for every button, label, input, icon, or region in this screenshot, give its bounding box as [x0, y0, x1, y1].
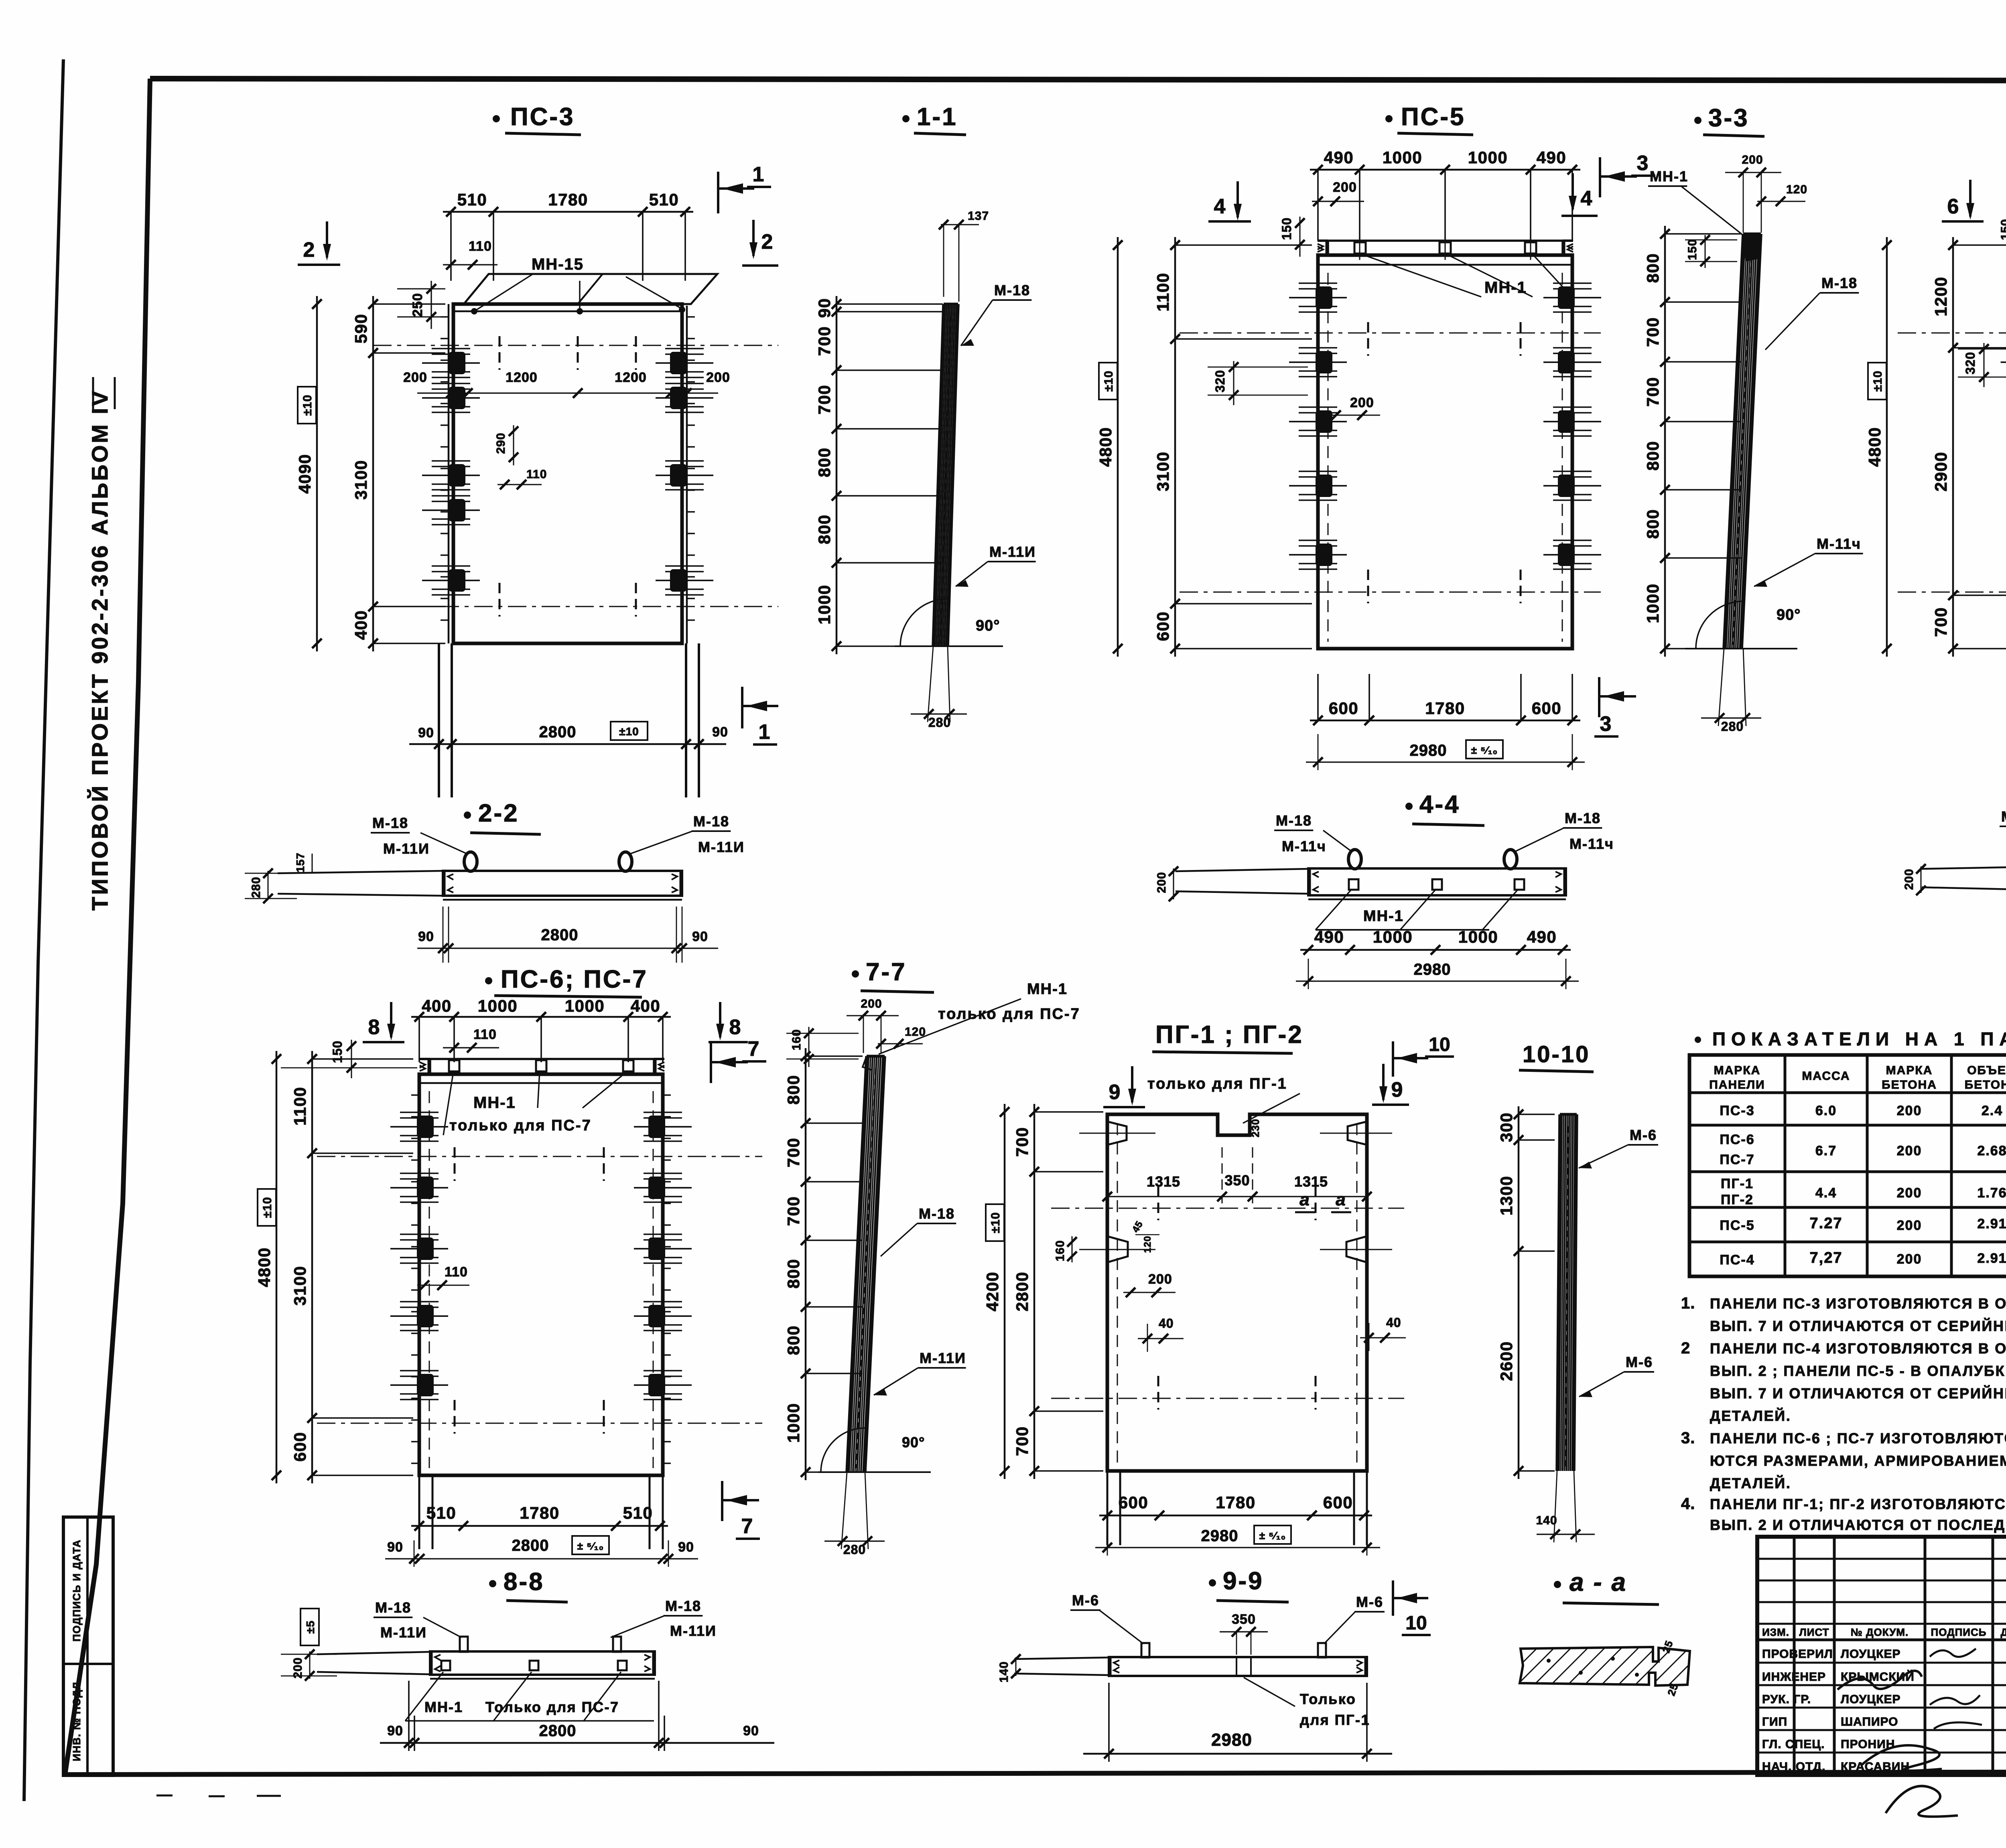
svg-text:157: 157 [294, 852, 307, 872]
ПС-4 edge anchors (middle) [2001, 345, 2006, 379]
title block staff rows [1762, 1647, 1915, 1773]
section 10-10 formwork element [1557, 1114, 1560, 1471]
dimension 2980 ±5/10 (ПС-5) [1306, 734, 1585, 770]
svg-text:М-11И: М-11И [383, 840, 430, 857]
svg-text:ПОДПИСЬ: ПОДПИСЬ [1931, 1626, 1987, 1638]
ПС-5 top flange strip with embeds [1318, 231, 1573, 260]
svg-text:1200: 1200 [506, 370, 538, 385]
section title 1-1 [902, 103, 966, 135]
ПС-5 centerlines [1180, 322, 1601, 603]
svg-text:700: 700 [1013, 1426, 1031, 1456]
plan view МН-15 plate [464, 274, 717, 304]
svg-text:ДЕТАЛЕЙ.: ДЕТАЛЕЙ. [1710, 1407, 1791, 1424]
dimension 90/2800/90 ±10 (ПС-6 bottom) [385, 1536, 698, 1567]
9-9 panel section bar [1014, 1657, 1367, 1676]
3-3 dimension chain 800/700/700/800/800/1000 [1664, 226, 1666, 657]
section title 8-8 [489, 1568, 568, 1602]
svg-text:2600: 2600 [1497, 1341, 1516, 1381]
label М-18 (1-1) [961, 282, 1031, 346]
svg-text:200: 200 [861, 997, 882, 1010]
svg-text:90: 90 [418, 929, 434, 944]
dimension 600/1780/600 (ПС-5 bottom) [1310, 720, 1580, 722]
svg-text:МН-15: МН-15 [532, 256, 584, 273]
svg-text:700: 700 [1643, 377, 1662, 407]
svg-text:2800: 2800 [512, 1537, 549, 1554]
svg-text:1315: 1315 [1147, 1173, 1180, 1190]
panel ПС-5 outline [1318, 255, 1572, 649]
svg-text:6.7: 6.7 [1815, 1143, 1837, 1158]
svg-text:160: 160 [1054, 1240, 1067, 1261]
panel ПС-6 outline [419, 1074, 663, 1475]
svg-text:200: 200 [1897, 1218, 1922, 1233]
view title ПГ-1; ПГ-2 [1152, 1021, 1303, 1053]
svg-text:1000: 1000 [1643, 583, 1662, 623]
section 3-3 formwork element [1724, 234, 1761, 649]
section marker 10 (top) [1393, 1034, 1454, 1077]
svg-text:ПС-6; ПС-7: ПС-6; ПС-7 [501, 966, 648, 993]
svg-text:90: 90 [387, 1723, 403, 1738]
svg-text:ПАНЕЛИ ПГ-1; ПГ-2 ИЗГОТОВЛЯЮТС: ПАНЕЛИ ПГ-1; ПГ-2 ИЗГОТОВЛЯЮТСЯ В ОПАЛУБ… [1710, 1495, 2006, 1512]
svg-text:КРАСАВИН: КРАСАВИН [1841, 1760, 1910, 1773]
svg-text:90°: 90° [976, 617, 1000, 634]
7-7 bottom dimension 280 [824, 1472, 885, 1557]
dimension 110 (ПС-6 top) [443, 1027, 499, 1053]
svg-text:±10: ±10 [301, 395, 314, 416]
svg-text:400: 400 [422, 996, 452, 1015]
ПГ formwork legs [1107, 1471, 1367, 1545]
svg-text:№ ДОКУМ.: № ДОКУМ. [1851, 1626, 1909, 1638]
svg-text:9-9: 9-9 [1223, 1567, 1264, 1595]
svg-text:ПАНЕЛИ ПС-3 ИЗГОТОВЛЯЮТСЯ В ОП: ПАНЕЛИ ПС-3 ИЗГОТОВЛЯЮТСЯ В ОПАЛУБКЕ ТИП… [1710, 1295, 2006, 1312]
svg-text:590: 590 [351, 314, 370, 344]
svg-text:600: 600 [1323, 1493, 1353, 1512]
svg-text:8-8: 8-8 [504, 1568, 544, 1596]
dimension 160 (ПГ left hook) [1054, 1236, 1077, 1262]
svg-text:только для ПС-7: только для ПС-7 [938, 1006, 1080, 1022]
svg-text:160: 160 [790, 1029, 803, 1050]
svg-text:±10: ±10 [1871, 371, 1884, 392]
svg-text:МАРКА: МАРКА [1714, 1064, 1761, 1077]
svg-text:ПС-3: ПС-3 [1720, 1103, 1754, 1118]
svg-text:1000: 1000 [1458, 927, 1498, 946]
section marker 9 (left) [1103, 1066, 1145, 1107]
dimension 250 (top offset) [397, 281, 445, 329]
panel ПГ-1 outline with notch [1107, 1114, 1367, 1471]
svg-text:800: 800 [784, 1075, 803, 1105]
section marker 3 (bottom) [1594, 677, 1636, 736]
svg-text:М-11ч: М-11ч [1817, 536, 1861, 552]
section marker 6 (left) [1942, 180, 1984, 221]
section title 3-3 [1694, 104, 1764, 136]
svg-text:600: 600 [1329, 699, 1359, 718]
ПС-6 edge anchors right [634, 1095, 692, 1463]
ПГ edge hooks [1079, 1122, 1392, 1262]
svg-text:120: 120 [1786, 183, 1807, 196]
dimension 150 (ПС-4 top-left) [1999, 217, 2006, 258]
label МН-15 with leaders [471, 256, 685, 314]
section 7-7 formwork element [847, 1056, 885, 1472]
panel ПС-3 front view outline [449, 304, 687, 643]
svg-text:90°: 90° [1777, 607, 1801, 623]
svg-text:320: 320 [1963, 352, 1978, 374]
svg-text:М-6: М-6 [1072, 1592, 1099, 1609]
svg-text:800: 800 [784, 1325, 803, 1355]
svg-text:90: 90 [712, 724, 728, 740]
svg-text:140: 140 [997, 1661, 1011, 1682]
svg-text:510: 510 [649, 190, 679, 209]
section marker 7 (bottom) [722, 1481, 760, 1539]
svg-text:230: 230 [1249, 1119, 1261, 1137]
svg-text:600: 600 [1119, 1493, 1149, 1512]
svg-text:ПГ-1: ПГ-1 [1721, 1176, 1754, 1191]
svg-text:490: 490 [1537, 148, 1567, 167]
svg-text:600: 600 [290, 1432, 309, 1462]
label МН-1 / только для ПС-7 (ПС-6) [433, 1072, 627, 1138]
9-9 loop studs [1141, 1643, 1326, 1657]
svg-text:1200: 1200 [1931, 276, 1950, 316]
svg-text:2980: 2980 [1201, 1527, 1239, 1545]
svg-text:только для ПС-7: только для ПС-7 [449, 1117, 592, 1134]
svg-text:280: 280 [250, 876, 263, 898]
dimension 200 leader (ПС-5) [1328, 395, 1380, 420]
svg-text:700: 700 [815, 326, 834, 356]
svg-text:350: 350 [1232, 1612, 1256, 1627]
svg-text:для ПГ-1: для ПГ-1 [1300, 1712, 1370, 1728]
3-3 top dimensions 200 / 120 [1725, 153, 1807, 233]
4-4 dimension 2980 [1296, 959, 1579, 989]
8-8 dimension 90/2800/90 [380, 1681, 774, 1751]
svg-text:МН-1: МН-1 [1363, 908, 1404, 925]
svg-text:ВЫП. 2 ; ПАНЕЛИ ПС-5 - В ОПАЛУ: ВЫП. 2 ; ПАНЕЛИ ПС-5 - В ОПАЛУБКЕ ТИПОВЫ… [1710, 1362, 2006, 1379]
svg-text:7-7: 7-7 [866, 958, 907, 986]
svg-text:7,27: 7,27 [1810, 1250, 1843, 1266]
svg-text:1780: 1780 [1425, 699, 1465, 718]
svg-text:490: 490 [1527, 927, 1557, 946]
svg-text:280: 280 [928, 715, 951, 730]
2-2 panel section bar [278, 871, 682, 900]
svg-text:±5: ±5 [304, 1621, 317, 1634]
svg-text:1780: 1780 [520, 1503, 559, 1522]
section title 2-2 [464, 799, 541, 834]
svg-text:ПАНЕЛИ: ПАНЕЛИ [1709, 1078, 1765, 1091]
svg-text:4090: 4090 [295, 454, 314, 493]
1-1 dimension chain 90/700/700/800/800/1000 [836, 296, 838, 654]
svg-text:2.4: 2.4 [1982, 1103, 2003, 1118]
svg-text:700: 700 [784, 1196, 803, 1226]
svg-text:10-10: 10-10 [1523, 1041, 1590, 1067]
svg-text:200: 200 [403, 370, 427, 385]
svg-text:Только: Только [1300, 1691, 1356, 1707]
dimensions 290 / 110 (left edge detail) [494, 425, 547, 489]
dimension 200/1200/1200/200 [403, 370, 730, 398]
svg-text:МН-1: МН-1 [473, 1094, 516, 1112]
svg-text:6.0: 6.0 [1815, 1103, 1837, 1118]
7-7 base line and 90° [818, 1428, 931, 1472]
dimension 110 (ПС-3 top left) [443, 239, 497, 270]
svg-text:a: a [1336, 1190, 1346, 1209]
svg-text:2: 2 [303, 238, 315, 262]
svg-text:ПС-5: ПС-5 [1401, 103, 1465, 131]
svg-text:1000: 1000 [815, 584, 834, 624]
dimension 320 (ПС-4 anchors) [1958, 343, 2006, 387]
svg-text:280: 280 [843, 1542, 866, 1557]
ПС-6 edge anchors left [390, 1095, 448, 1463]
svg-text:2800: 2800 [539, 1722, 577, 1740]
section marker 8 (left) [363, 1002, 404, 1042]
7-7 top dimensions 200 / 120 [847, 997, 926, 1053]
svg-text:1000: 1000 [478, 996, 518, 1015]
notes paragraph 1-4 [1681, 1294, 2006, 1533]
svg-text:510: 510 [457, 190, 487, 209]
dimension 4800 ±10 (ПС-5 overall) [1096, 237, 1123, 657]
label только для ПГ-1 (ПГ panel) [1144, 1075, 1317, 1123]
svg-text:М-18: М-18 [919, 1205, 955, 1222]
svg-text:ПГ-2: ПГ-2 [1721, 1192, 1754, 1207]
svg-text:МАРКА: МАРКА [1886, 1064, 1933, 1077]
ПС-3 edge anchors left [422, 317, 480, 620]
svg-text:ДАТА: ДАТА [2000, 1626, 2006, 1638]
small dims 45 120 (ПГ hook) [1130, 1219, 1159, 1253]
section marker 1 (top) [718, 163, 771, 213]
3-3 base line and 90° [1685, 601, 1801, 649]
svg-text:200: 200 [291, 1657, 305, 1678]
svg-text:М-18: М-18 [665, 1598, 701, 1614]
svg-text:ПОКАЗАТЕЛИ НА 1 ПАНЕЛЬ: ПОКАЗАТЕЛИ НА 1 ПАНЕЛЬ [1712, 1028, 2006, 1049]
title block frame [1757, 1537, 2006, 1775]
svg-text:1780: 1780 [548, 190, 588, 209]
dimension chain 1100/3100/600 (ПС-5 left) [1174, 237, 1176, 657]
dimension 490/1000/1000/490 (ПС-5 top) [1310, 169, 1580, 171]
ПС-3 centerlines [373, 336, 778, 617]
svg-text:2800: 2800 [541, 926, 579, 944]
view title ПС-6; ПС-7 [485, 966, 648, 997]
title block signatures [1837, 1649, 1982, 1817]
10-10 dimension chain 300/1300/2600 [1518, 1106, 1520, 1479]
svg-text:200: 200 [1742, 153, 1763, 166]
section title 7-7 [852, 958, 934, 992]
svg-text:510: 510 [623, 1503, 653, 1522]
svg-text:МН-1: МН-1 [1650, 168, 1688, 185]
svg-text:МН-1: МН-1 [424, 1699, 463, 1715]
svg-text:4800: 4800 [1096, 427, 1115, 467]
svg-text:90°: 90° [902, 1434, 925, 1450]
svg-text:3100: 3100 [290, 1266, 309, 1305]
svg-text:4: 4 [1581, 187, 1592, 210]
ПС-6 formwork legs [419, 1475, 663, 1549]
svg-text:200: 200 [1902, 868, 1916, 890]
margin text: ТИПОВОЙ ПРОЕКТ 902-2-306 АЛЬБОМ IV [87, 377, 115, 911]
svg-text:250: 250 [410, 293, 425, 317]
svg-text:4.4: 4.4 [1815, 1185, 1837, 1201]
svg-text:4-4: 4-4 [1419, 791, 1460, 818]
svg-text:700: 700 [815, 385, 834, 415]
svg-text:1100: 1100 [1153, 272, 1172, 311]
svg-text:М-11И: М-11И [698, 839, 745, 855]
svg-text:40: 40 [1159, 1316, 1174, 1331]
8-8 panel section bar [317, 1651, 655, 1679]
svg-text:±10: ±10 [619, 725, 639, 738]
svg-text:120: 120 [1142, 1235, 1153, 1253]
svg-text:±10: ±10 [989, 1212, 1002, 1233]
9-9 dimension 350 [1220, 1612, 1268, 1655]
4-4 dimension 490/1000/1000/490 [1300, 949, 1571, 951]
ПС-3 formwork legs [439, 643, 699, 797]
dimension 200 (ПГ) [1123, 1272, 1176, 1297]
svg-text:1.76: 1.76 [1977, 1185, 2006, 1201]
section marker 3 (top) [1600, 152, 1655, 197]
1-1 bottom dimension 280 [911, 646, 967, 730]
svg-text:7: 7 [748, 1037, 759, 1061]
3-3 bottom dimension 280 [1701, 649, 1761, 734]
binding margin line [24, 59, 63, 1801]
svg-text:3: 3 [1637, 152, 1649, 175]
2-2 lifting loops [464, 852, 632, 871]
label М-11И (1-1) [956, 544, 1036, 587]
section marker 2 (right) [742, 220, 778, 266]
svg-text:320: 320 [1213, 370, 1227, 392]
svg-text:1000: 1000 [1468, 148, 1508, 167]
svg-text:8: 8 [368, 1016, 380, 1039]
svg-text:ДЕТАЛЕЙ.: ДЕТАЛЕЙ. [1710, 1475, 1791, 1491]
svg-text:Только для ПС-7: Только для ПС-7 [485, 1699, 619, 1715]
svg-text:ПОДПИСЬ И ДАТА: ПОДПИСЬ И ДАТА [71, 1539, 83, 1641]
svg-text:БЕТОНА: БЕТОНА [1882, 1078, 1937, 1091]
svg-text:800: 800 [815, 447, 834, 477]
section marker 9 (right) [1372, 1064, 1409, 1105]
svg-text:90: 90 [418, 725, 434, 740]
svg-text:90: 90 [743, 1723, 759, 1738]
label М-18 (3-3) [1765, 275, 1859, 350]
dimension 150 (ПС-5 top-left) [1279, 217, 1305, 257]
svg-text:200: 200 [1333, 180, 1357, 195]
dimension 90/2800/90 (ПС-3 bottom) [409, 722, 728, 749]
svg-text:2980: 2980 [1410, 742, 1447, 759]
dimension chain 700/2800/700 (ПГ left) [1033, 1104, 1035, 1479]
svg-text:6: 6 [1947, 195, 1959, 218]
svg-text:М-18: М-18 [1565, 810, 1601, 826]
svg-text:600: 600 [1532, 699, 1562, 718]
svg-text:120: 120 [905, 1025, 926, 1039]
stamp box ПОДПИСЬ И ДАТА / ИНВ.№ ПОДЛ. [63, 1517, 113, 1775]
svg-text:М-18: М-18 [372, 815, 408, 831]
svg-text:М-11ч: М-11ч [1569, 836, 1614, 852]
svg-text:2: 2 [761, 230, 773, 254]
svg-text:М-6: М-6 [1630, 1127, 1657, 1143]
ПС-5 edge anchors left [1289, 283, 1347, 569]
svg-text:2: 2 [1681, 1339, 1690, 1357]
svg-text:3100: 3100 [1153, 451, 1172, 491]
section marker 1 (bottom) [742, 687, 778, 744]
svg-text:3100: 3100 [351, 460, 370, 499]
dimension 160 (7-7 top left) [786, 1027, 859, 1067]
svg-text:1000: 1000 [784, 1403, 803, 1442]
svg-text:90: 90 [815, 298, 834, 318]
ПС-5 edge anchors right [1543, 283, 1601, 569]
section title 4-4 [1405, 791, 1484, 826]
10-10 bottom dimension 140 [1536, 1471, 1595, 1542]
svg-text:200: 200 [1897, 1252, 1922, 1267]
svg-text:М-10: М-10 [2001, 808, 2006, 825]
dimension 4800 ±10 (ПС-4 overall) [1865, 237, 1892, 657]
label М-11ч (3-3) [1754, 536, 1863, 587]
svg-text:ПС-4: ПС-4 [1720, 1252, 1754, 1268]
svg-text:ВЫП. 2 И ОТЛИЧАЮТСЯ ОТ ПОСЛЕДН: ВЫП. 2 И ОТЛИЧАЮТСЯ ОТ ПОСЛЕДНИХ АРМИРОВ… [1710, 1517, 2006, 1533]
svg-text:490: 490 [1314, 927, 1344, 946]
1-1 top dimension 137 [939, 209, 989, 302]
svg-text:200: 200 [1155, 872, 1168, 893]
6-6 left dimension 200 [1902, 864, 1926, 895]
svg-text:ИНЖЕНЕР: ИНЖЕНЕР [1762, 1670, 1826, 1684]
svg-text:М-11И: М-11И [380, 1624, 427, 1641]
svg-text:110: 110 [445, 1264, 468, 1280]
svg-text:2.91: 2.91 [1977, 1216, 2006, 1231]
label МН-1 (ПС-5) with leaders [1364, 255, 1567, 302]
labels М-18 М-11И (8-8 left) [374, 1599, 461, 1641]
svg-text:2980: 2980 [1211, 1730, 1252, 1750]
svg-text:280: 280 [1721, 719, 1744, 734]
section title 9-9 [1209, 1567, 1289, 1602]
8-8 embed squares [441, 1661, 627, 1670]
svg-text:200: 200 [1897, 1143, 1922, 1158]
section marker 4 (left) [1208, 181, 1251, 221]
dimension 4800 ±10 (ПС-6 overall) [255, 1051, 281, 1483]
svg-text:1000: 1000 [565, 996, 605, 1015]
labels М-18 М-11И (8-8 right) [611, 1598, 717, 1639]
dimension 400/1000/1000/400 (ПС-6 top) [411, 1016, 671, 1018]
svg-text:200: 200 [706, 370, 730, 385]
svg-text:1.: 1. [1681, 1294, 1695, 1312]
section marker 2 (left) [298, 221, 340, 265]
labels М-18 М-11И (2-2 left) [371, 815, 467, 857]
svg-text:110: 110 [473, 1027, 497, 1042]
svg-text:ГИП: ГИП [1762, 1715, 1787, 1728]
svg-text:ВЫП. 7 И ОТЛИЧАЮТСЯ ОТ СЕРИЙНЫ: ВЫП. 7 И ОТЛИЧАЮТСЯ ОТ СЕРИЙНЫХ РАЗМЕРАМ… [1710, 1317, 2006, 1334]
svg-text:200: 200 [1897, 1103, 1922, 1118]
svg-text:± ⁵⁄₁₀: ± ⁵⁄₁₀ [577, 1540, 604, 1552]
4-4 lifting loops [1348, 850, 1517, 869]
svg-text:± ⁵⁄₁₀: ± ⁵⁄₁₀ [1259, 1530, 1286, 1542]
svg-text:М-6: М-6 [1356, 1594, 1383, 1610]
dimension 150 (ПС-6 top left) [281, 1040, 417, 1078]
svg-text:7: 7 [741, 1515, 753, 1538]
9-9 dimension 2980 [1083, 1683, 1392, 1762]
svg-text:700: 700 [1013, 1127, 1031, 1157]
dimension 2980 ±5/10 (ПГ) [1095, 1525, 1380, 1556]
svg-text:ЛОУЦКЕР: ЛОУЦКЕР [1841, 1693, 1901, 1706]
9-9 dimension 140 [997, 1654, 1021, 1683]
8-8 loop studs [460, 1637, 621, 1652]
svg-text:2.68: 2.68 [1977, 1143, 2006, 1158]
dimension chain 590/3100/400 (ПС-3 left) [372, 296, 374, 651]
svg-text:ЮТСЯ РАЗМЕРАМИ, АРМИРОВАНИЕМ И: ЮТСЯ РАЗМЕРАМИ, АРМИРОВАНИЕМ И НАЛИЧИЕМ … [1710, 1452, 2006, 1469]
svg-text:ОБЪЕМ: ОБЪЕМ [1967, 1064, 2006, 1077]
svg-text:150: 150 [1279, 217, 1294, 240]
svg-text:М-18: М-18 [693, 813, 729, 830]
view title ПС-3 [493, 103, 581, 135]
svg-text:800: 800 [1643, 509, 1662, 539]
svg-text:М-18: М-18 [1821, 275, 1858, 291]
4-4 embed squares [1349, 879, 1524, 890]
3-3 dimension 150 [1685, 235, 1737, 268]
svg-text:ИНВ. № ПОДЛ.: ИНВ. № ПОДЛ. [71, 1678, 83, 1761]
4-4 panel section bar [1176, 868, 1566, 899]
svg-text:М-11И: М-11И [670, 1623, 717, 1639]
svg-text:ПАНЕЛИ ПС-4 ИЗГОТОВЛЯЮТСЯ В ОП: ПАНЕЛИ ПС-4 ИЗГОТОВЛЯЮТСЯ В ОПАЛУБКЕ ТИП… [1710, 1340, 2006, 1357]
section title 10-10 [1519, 1041, 1594, 1072]
ПС-4 centerlines [1898, 322, 2006, 603]
a-a concrete section detail [1500, 1639, 1707, 1697]
labels М-18 М-11И (2-2 right) [631, 813, 745, 855]
